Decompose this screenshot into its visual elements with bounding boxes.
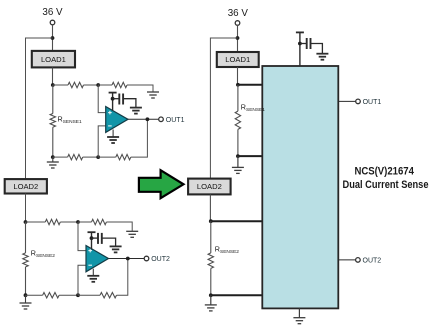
- wire VCC2 down to LOAD1: [237, 25, 239, 52]
- wire U1 V- stub: [112, 130, 114, 138]
- wire -input (ckt2): [78, 265, 86, 295]
- IC U3 NCS(V)21674 body: [262, 66, 338, 308]
- node OUT2 terminal (right): [356, 258, 361, 263]
- wire U2 output: [109, 258, 145, 260]
- wire pin IN2+ to IC: [211, 220, 262, 222]
- svg-text:OUT1: OUT1: [363, 99, 382, 106]
- node junction VCC2: [236, 36, 240, 40]
- label RSENSE2 (right): [215, 245, 239, 256]
- arrow (discrete-to-IC): [139, 170, 184, 198]
- node VCC2 36V label: [228, 8, 249, 19]
- node C1 junction (RSENSE1 bottom): [51, 155, 55, 159]
- resistor Rf1b (feedback, ckt1): [116, 154, 131, 159]
- wire to node D2: [59, 294, 78, 296]
- wire node D1 right: [98, 156, 116, 158]
- ground (C1 bypass, ckt1): [130, 108, 142, 114]
- node pin IN1+ junction: [236, 83, 240, 87]
- load LOAD1 (left): [32, 51, 75, 68]
- supply bar U2 V+: [88, 231, 96, 233]
- resistor Rg2a (top-left, ckt2): [45, 219, 60, 224]
- resistor RSENSE1 (right): [235, 85, 240, 156]
- wire V+ to C2 cap: [92, 237, 99, 239]
- capacitor C3 (IC bypass): [307, 38, 311, 49]
- wire VCC2 branch to LOAD2 column (right): [210, 38, 237, 179]
- ground (U2 V-, ckt2): [87, 276, 99, 282]
- ground (C3 bypass): [316, 54, 328, 60]
- wire U2 V+ stub: [91, 232, 93, 249]
- svg-text:RSENSE2: RSENSE2: [215, 245, 239, 256]
- svg-text:OUT2: OUT2: [151, 256, 170, 263]
- label OUT2 (left): [151, 256, 170, 263]
- load LOAD2 (left): [5, 179, 47, 193]
- svg-text:LOAD2: LOAD2: [13, 182, 38, 191]
- svg-text:LOAD1: LOAD1: [225, 55, 250, 64]
- wire V+ to C3 cap: [300, 43, 307, 45]
- load LOAD1 (right): [217, 52, 259, 67]
- supply bar U1 V+: [109, 92, 117, 94]
- wire to node D1: [83, 156, 99, 158]
- node OUT1 terminal (left): [159, 117, 164, 122]
- node B2 junction (+input net): [76, 220, 80, 224]
- node U1 V+ junction: [111, 97, 115, 101]
- resistor Rf1a (bottom-left, ckt1): [68, 154, 83, 159]
- node pin IN2- junction: [209, 293, 213, 297]
- label IC part number: [354, 166, 414, 178]
- label RSENSE1 (right): [241, 103, 265, 114]
- wire +input (ckt2): [78, 222, 86, 251]
- node A1 junction: [51, 83, 55, 87]
- ground (U1 V-, ckt1): [107, 137, 119, 143]
- node OUT2 terminal (left): [144, 256, 149, 261]
- resistor Rg1b (top-right to gnd, ckt1): [112, 82, 127, 87]
- node A2 junction: [24, 220, 28, 224]
- wire LOAD2 to node A2: [25, 194, 27, 223]
- ground (IC): [293, 318, 305, 324]
- op-amp U1 (ckt1): [106, 107, 128, 133]
- wire node D2 right: [78, 294, 100, 296]
- wire node A1 right: [53, 84, 68, 86]
- wire Rg1b to ground corner: [127, 85, 153, 92]
- node OUT1 terminal (right): [356, 99, 361, 104]
- label RSENSE2 (ckt2): [31, 249, 55, 260]
- node VCC1 terminal: [50, 20, 55, 25]
- wire pin IN2- to IC: [211, 294, 262, 296]
- wire IC OUT1 pin: [338, 100, 356, 102]
- wire node C1 right: [53, 156, 68, 158]
- wire C1 to ground: [123, 99, 136, 108]
- wire U1 output: [128, 118, 159, 120]
- wire C3 to ground: [311, 44, 323, 54]
- node D2 junction (-input net): [76, 293, 80, 297]
- resistor Rg1a (top-left, ckt1): [68, 82, 84, 87]
- svg-text:36 V: 36 V: [42, 7, 63, 18]
- svg-text:RSENSE2: RSENSE2: [31, 249, 55, 260]
- wire node A2 right: [26, 221, 46, 223]
- wire to node B1: [84, 84, 99, 86]
- wire Rg2b to ground corner: [106, 222, 132, 231]
- wire pin IN1- to IC: [238, 155, 262, 157]
- node U2 V+ junction: [90, 236, 94, 240]
- capacitor C1 (bypass ckt1): [119, 94, 123, 105]
- wire to node B2: [60, 221, 78, 223]
- node IC V+ junction: [298, 42, 302, 46]
- ground (right RSENSE1): [232, 156, 244, 173]
- load LOAD2 (right): [188, 179, 231, 195]
- node VCC1 36V label: [42, 7, 63, 18]
- label IC function: [343, 179, 429, 191]
- wire IC OUT2 pin: [338, 259, 355, 261]
- resistor Rf2a (bottom-left, ckt2): [43, 293, 60, 298]
- wire node C2 right: [26, 294, 43, 296]
- wire pin IN1+ to IC: [238, 84, 262, 86]
- label RSENSE1 (ckt1): [58, 115, 82, 126]
- svg-text:36 V: 36 V: [228, 8, 249, 19]
- ground (C2 bypass, ckt2): [110, 246, 122, 252]
- svg-text:NCS(V)21674: NCS(V)21674: [354, 166, 414, 178]
- svg-text:RSENSE1: RSENSE1: [58, 115, 82, 126]
- wire V+ to C1 cap: [113, 98, 120, 100]
- wire LOAD2 to pin node (right): [209, 194, 211, 221]
- wire +input (ckt1): [98, 85, 106, 113]
- wire IC ground stub: [298, 308, 300, 317]
- node pin IN1- junction: [236, 154, 240, 158]
- label OUT1 (right): [363, 99, 382, 106]
- wire U1 V+ stub: [112, 93, 114, 111]
- wire LOAD1 to sense node A1: [52, 67, 54, 85]
- node output junction (ckt2): [126, 257, 130, 261]
- label OUT2 (right): [363, 258, 382, 265]
- svg-text:LOAD1: LOAD1: [41, 55, 66, 64]
- wire node B1 right: [98, 84, 112, 86]
- wire -input (ckt1): [98, 126, 106, 157]
- wire IC V+ stub: [299, 32, 301, 66]
- ground (ckt1 top-right): [147, 92, 159, 98]
- op-amp U2 (ckt2): [86, 246, 109, 272]
- wire node B2 right: [78, 221, 92, 223]
- node VCC2 terminal: [235, 21, 240, 26]
- wire C2 to ground: [102, 238, 116, 246]
- node C2 junction (RSENSE2 bottom): [24, 293, 28, 297]
- wire LOAD1 to pin node (right): [237, 67, 239, 85]
- wire U2 V- stub: [92, 269, 94, 276]
- node junction VCC1: [51, 36, 55, 40]
- resistor Rf2b (feedback, ckt2): [100, 293, 117, 298]
- resistor Rg2b (to gnd, ckt2): [92, 219, 107, 224]
- wire feedback up to output (ckt2): [117, 259, 128, 296]
- wire feedback up to output (ckt1): [131, 119, 148, 157]
- svg-text:OUT2: OUT2: [363, 258, 382, 265]
- resistor RSENSE2 (left ckt2): [23, 222, 28, 295]
- node D1 junction (-input net): [96, 155, 100, 159]
- ground (right RSENSE2): [205, 295, 217, 311]
- wire VCC1 down to LOAD1: [52, 25, 54, 51]
- resistor RSENSE1 (left ckt1): [50, 85, 55, 157]
- capacitor C2 (bypass ckt2): [98, 233, 102, 244]
- svg-text:OUT1: OUT1: [166, 117, 185, 124]
- node output junction (ckt1): [146, 117, 150, 121]
- wire VCC1 branch to LOAD2 column: [26, 38, 53, 179]
- node B1 junction (+input net): [96, 83, 100, 87]
- ground (ckt1 bottom-left): [47, 157, 59, 168]
- svg-text:LOAD2: LOAD2: [197, 182, 222, 191]
- svg-text:Dual Current Sense: Dual Current Sense: [343, 179, 429, 191]
- supply bar IC V+: [296, 31, 304, 33]
- label OUT1 (left): [166, 117, 185, 124]
- ground (ckt2 top-right): [126, 231, 138, 237]
- node pin IN2+ junction: [209, 219, 213, 223]
- resistor RSENSE2 (right): [208, 221, 213, 295]
- ground (ckt2 bottom-left): [20, 295, 32, 309]
